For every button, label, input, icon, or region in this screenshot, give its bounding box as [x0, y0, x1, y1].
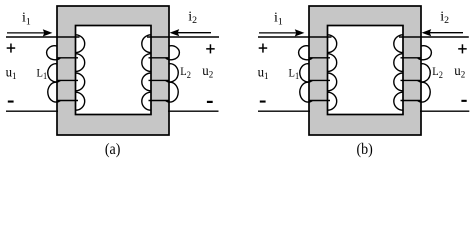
label minus left (b) [260, 101, 266, 103]
label plus left (b) [259, 44, 268, 53]
svg-text:u2: u2 [454, 62, 465, 80]
wire: top-right terminal into winding L2 (b) [399, 36, 469, 38]
label plus right (a) [206, 44, 215, 53]
wire: bottom-right terminal (a) [168, 110, 219, 112]
svg-text:u2: u2 [202, 62, 213, 80]
winding L1 (b) [299, 35, 337, 110]
svg-text:L1: L1 [37, 67, 48, 81]
wire: top-left terminal into winding L1 (a) [6, 36, 80, 38]
winding L2 (b) [394, 35, 432, 110]
svg-text:u1: u1 [258, 64, 269, 82]
label minus left (a) [8, 101, 14, 103]
svg-text:i1: i1 [274, 11, 283, 28]
svg-text:L1: L1 [289, 67, 300, 81]
label plus right (b) [458, 44, 467, 53]
wire: top-right terminal into winding L2 (a) [147, 36, 219, 38]
winding L2 (a) [142, 35, 180, 110]
wire: bottom-left terminal (a) [6, 110, 58, 112]
svg-text:L2: L2 [432, 65, 443, 79]
current arrow i1 (b) [259, 29, 304, 36]
svg-text:L2: L2 [180, 65, 191, 79]
wire: bottom-right terminal (b) [420, 110, 469, 112]
svg-text:i2: i2 [440, 9, 449, 26]
svg-text:(a): (a) [105, 141, 121, 158]
magnetic core (b) [309, 6, 421, 135]
label plus left (a) [7, 44, 16, 53]
label minus right (b) [461, 100, 466, 102]
wire: bottom-left terminal (b) [258, 110, 310, 112]
svg-text:u1: u1 [6, 64, 17, 82]
svg-text:i2: i2 [188, 9, 197, 26]
magnetic core (a) [57, 6, 169, 135]
current arrow i1 (a) [7, 29, 52, 36]
label minus right (a) [207, 101, 213, 103]
wire: top-left terminal into winding L1 (b) [258, 36, 332, 38]
svg-text:i1: i1 [22, 11, 31, 28]
current arrow i2 (b) [422, 29, 463, 36]
current arrow i2 (a) [170, 29, 211, 36]
svg-text:(b): (b) [356, 141, 372, 158]
winding L1 (a) [47, 35, 85, 110]
